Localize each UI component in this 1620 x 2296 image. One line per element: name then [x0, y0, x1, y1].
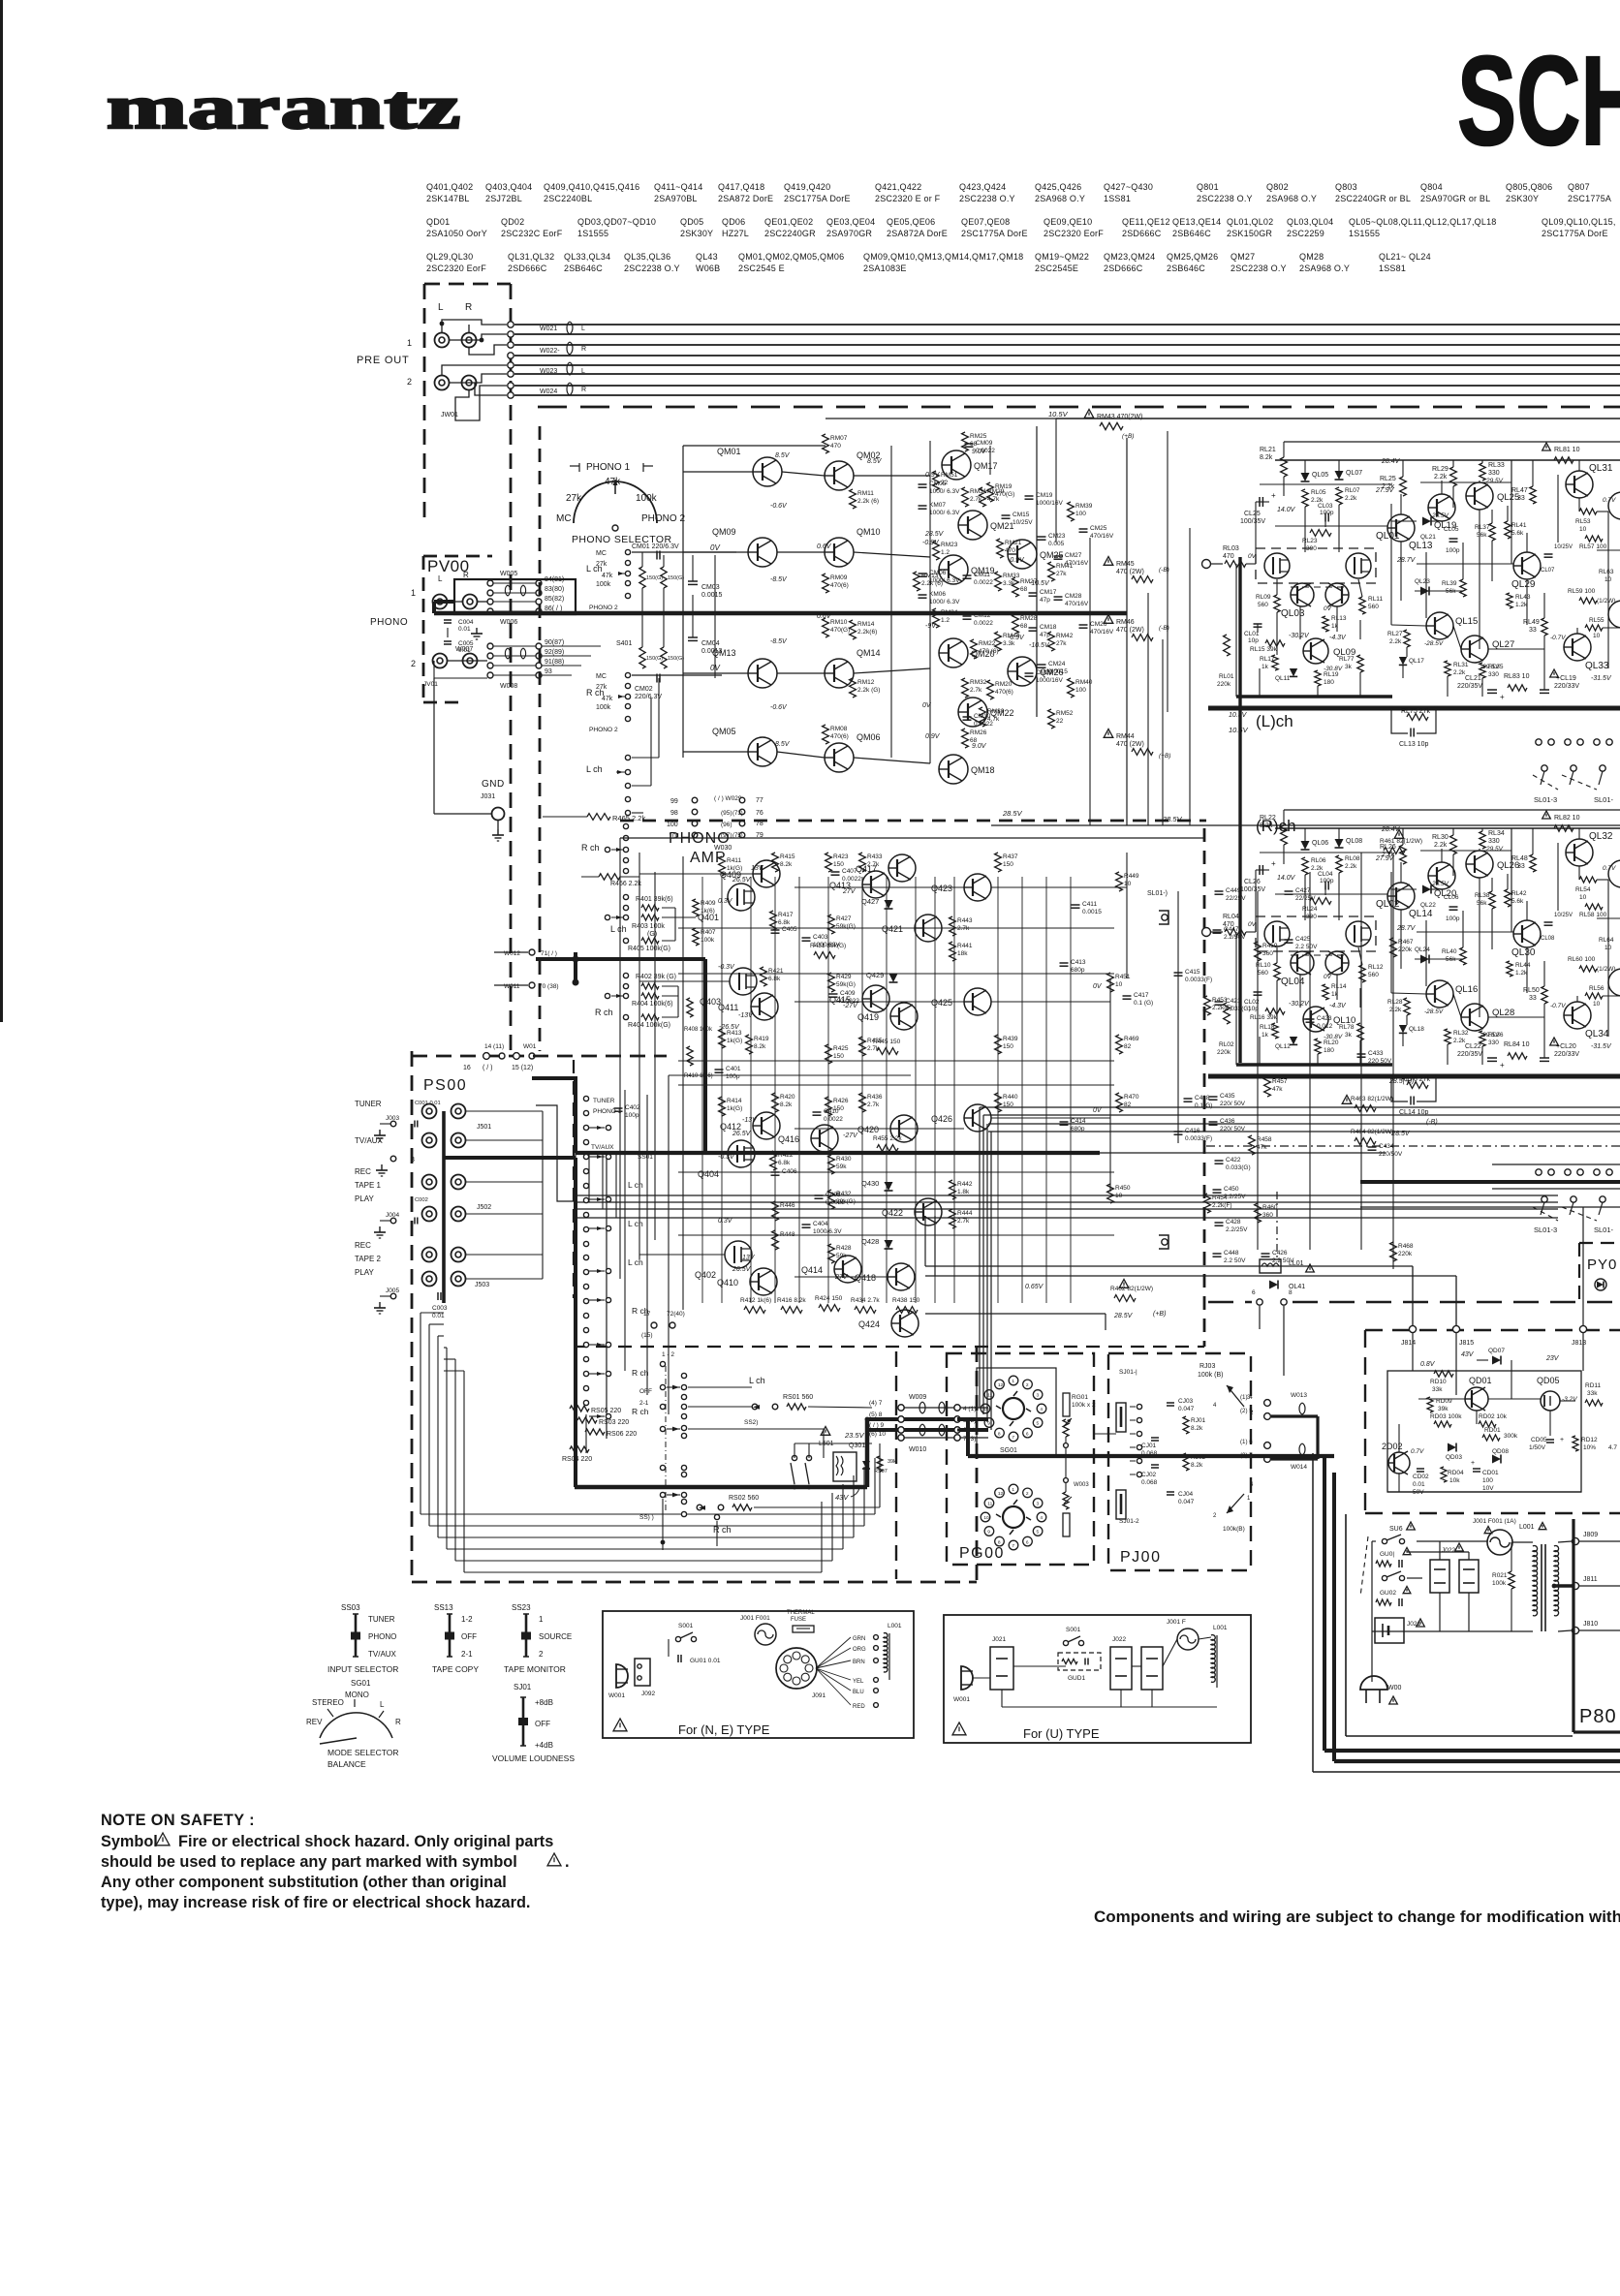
svg-text:470(6): 470(6)	[830, 582, 849, 589]
resistor RM51 22	[933, 471, 940, 490]
transistor QM26	[1008, 657, 1037, 686]
MC amp wiring rails	[682, 446, 684, 758]
svg-text:W008: W008	[500, 683, 517, 690]
svg-text:470(6): 470(6)	[995, 689, 1013, 696]
svg-text:R419: R419	[754, 1036, 769, 1042]
svg-text:RM45: RM45	[1116, 561, 1135, 568]
svg-text:QD02: QD02	[501, 217, 524, 227]
svg-text:2SK150GR: 2SK150GR	[1227, 229, 1272, 238]
dual FET QL02	[1256, 916, 1376, 951]
selector wires to jacks	[465, 1110, 543, 1112]
svg-text:J503: J503	[475, 1282, 489, 1288]
dash-dot column	[665, 1366, 667, 1511]
resistor R467 220k	[1390, 938, 1397, 957]
svg-text:RM33: RM33	[1003, 573, 1020, 579]
svg-text:470: 470	[1223, 553, 1234, 560]
svg-text:P80: P80	[1579, 1706, 1617, 1727]
svg-text:C401: C401	[726, 1066, 741, 1072]
resistor RM45 470 (2W) with hazard triangle	[1104, 557, 1113, 566]
svg-text:0.8V: 0.8V	[1420, 1361, 1436, 1368]
svg-text:C422: C422	[1226, 1157, 1241, 1164]
resistor RS02 560	[697, 1505, 702, 1510]
svg-text:+4dB: +4dB	[535, 1741, 553, 1750]
capacitor C414 680p	[1060, 1121, 1069, 1123]
svg-text:2.2k: 2.2k	[1345, 863, 1357, 870]
resistor RM24 1.2	[933, 608, 940, 628]
svg-text:QL43: QL43	[696, 252, 718, 262]
resistor RM08 470(6)	[823, 725, 829, 744]
svg-text:6: 6	[1252, 1289, 1256, 1296]
svg-text:+: +	[1500, 1061, 1505, 1070]
capacitor block J021	[1375, 1618, 1404, 1643]
resistor RM11 2.2k (6)	[850, 489, 857, 509]
svg-text:2.2k: 2.2k	[1434, 474, 1448, 481]
svg-text:R457: R457	[1272, 1078, 1288, 1085]
svg-text:R403 100k: R403 100k	[632, 923, 665, 930]
transistor QM25	[1008, 540, 1037, 569]
svg-text:220k: 220k	[1398, 1251, 1413, 1257]
svg-text:QM09: QM09	[712, 527, 736, 537]
left long wires to tape contacts	[632, 757, 659, 759]
svg-text:SL01-3: SL01-3	[1534, 795, 1557, 804]
svg-text:11: 11	[987, 1502, 992, 1507]
capacitor block J021 U	[990, 1647, 1013, 1690]
svg-text:8: 8	[998, 1431, 1001, 1437]
svg-text:Q417,Q418: Q417,Q418	[718, 182, 764, 192]
svg-text:150: 150	[1003, 1043, 1013, 1050]
diode QL08	[1335, 839, 1344, 848]
svg-text:RD04: RD04	[1448, 1470, 1464, 1476]
svg-text:13V: 13V	[742, 1255, 756, 1261]
resistor R412 1k(6)	[744, 1307, 765, 1314]
relay contact feed wires	[1492, 1164, 1620, 1165]
resistor RL20 180	[1315, 1039, 1321, 1054]
svg-text:0.65V: 0.65V	[1025, 1284, 1044, 1290]
resistor RL14 1k	[1323, 984, 1328, 1000]
svg-text:RL55: RL55	[1589, 617, 1604, 624]
resistor R462 82(1/2W)	[1114, 1295, 1136, 1302]
svg-text:27k: 27k	[566, 493, 582, 504]
svg-text:0V: 0V	[1248, 921, 1257, 928]
svg-text:QD05: QD05	[1537, 1376, 1560, 1385]
svg-text:33: 33	[1529, 627, 1537, 634]
svg-text:2SD666C: 2SD666C	[1122, 229, 1162, 238]
svg-text:82: 82	[1124, 1043, 1132, 1050]
svg-text:J502: J502	[477, 1204, 491, 1211]
svg-text:RL76 27k: RL76 27k	[1401, 1076, 1430, 1083]
resistor RM43 470(2W) with hazard triangle	[1084, 410, 1094, 419]
svg-text:QL03,QL04: QL03,QL04	[1287, 217, 1333, 227]
svg-text:Q401: Q401	[698, 913, 719, 922]
resistor RS05 220	[570, 1406, 589, 1412]
capacitor CM25 470/16V	[1079, 528, 1088, 530]
svg-text:RM43 470(2W): RM43 470(2W)	[1097, 414, 1142, 420]
capacitor C422 0.033(G)	[1215, 1160, 1224, 1162]
svg-text:SJ01-2: SJ01-2	[1119, 1518, 1139, 1525]
svg-text:9.0V: 9.0V	[972, 743, 987, 750]
resistor RL09 560	[1274, 595, 1280, 612]
svg-text:RD10: RD10	[1430, 1379, 1447, 1385]
resistor R460 360	[1255, 1203, 1262, 1223]
svg-text:47k: 47k	[1257, 1144, 1267, 1151]
svg-text:2.2/25V: 2.2/25V	[1224, 1194, 1246, 1200]
svg-text:QL29: QL29	[1511, 579, 1536, 590]
capacitor CL07	[1544, 553, 1553, 555]
svg-text:8.2k: 8.2k	[754, 1043, 766, 1050]
resistor RD11 33k	[1585, 1400, 1603, 1406]
svg-text:SS01: SS01	[638, 1154, 653, 1161]
capacitor CL04 100p	[1324, 882, 1326, 890]
thick phono signal bus	[434, 600, 455, 604]
resistor RL26 2.2k	[1400, 845, 1407, 864]
svg-text:RL09: RL09	[1256, 594, 1271, 601]
resistor RD02 10k	[1479, 1421, 1496, 1427]
svg-text:MODE SELECTOR: MODE SELECTOR	[327, 1748, 399, 1757]
pre-out bus wires W021-W024 to right edge	[514, 324, 1620, 326]
svg-text:(73): (73)	[732, 811, 743, 817]
svg-text:1: 1	[539, 1615, 544, 1624]
svg-text:SS2): SS2)	[744, 1419, 758, 1426]
svg-text:RS07: RS07	[874, 1469, 888, 1474]
svg-text:QL28: QL28	[1492, 1008, 1514, 1018]
svg-text:10: 10	[983, 1515, 989, 1521]
edge transistor upper (L)ch	[1608, 492, 1620, 519]
svg-text:QM13: QM13	[712, 648, 736, 658]
capacitor CL01 10p	[1254, 623, 1262, 625]
svg-text:GU02: GU02	[1380, 1590, 1396, 1597]
transistor QM01	[753, 457, 782, 486]
svg-text:J022: J022	[1442, 1547, 1455, 1554]
svg-text:Q410: Q410	[717, 1278, 738, 1288]
svg-text:BLU: BLU	[853, 1690, 864, 1695]
svg-text:28.5V: 28.5V	[1431, 881, 1449, 887]
ground mark pv00	[476, 628, 478, 634]
svg-text:GND: GND	[482, 779, 505, 790]
resistor RM26 68	[962, 729, 969, 748]
svg-text:Q807: Q807	[1568, 182, 1590, 192]
svg-text:RM39: RM39	[1075, 503, 1093, 510]
thick speaker buses	[1312, 1453, 1314, 1772]
svg-text:SJ01-|: SJ01-|	[1119, 1369, 1137, 1376]
svg-text:4: 4	[1040, 1407, 1043, 1412]
resistor RL19 180	[1315, 670, 1321, 686]
svg-text:QL06: QL06	[1312, 840, 1328, 847]
svg-text:PLAY: PLAY	[355, 1195, 375, 1203]
svg-text:0.033(G): 0.033(G)	[1226, 1164, 1251, 1171]
svg-text:RL10: RL10	[1256, 962, 1271, 969]
svg-text:RM22: RM22	[979, 640, 996, 647]
svg-text:W003: W003	[1074, 1482, 1089, 1488]
svg-text:RM08: RM08	[830, 726, 848, 732]
resistor R451 10	[1107, 973, 1114, 992]
resistor RL35 330	[1480, 663, 1485, 678]
capacitor CL02 10p	[1254, 991, 1262, 993]
svg-text:C415: C415	[1185, 969, 1200, 976]
svg-text:470(6): 470(6)	[830, 733, 849, 740]
transistor 2D02	[1388, 1452, 1410, 1474]
svg-text:100k: 100k	[636, 493, 658, 504]
svg-text:560: 560	[1258, 602, 1268, 608]
transistor QL14	[1387, 883, 1415, 910]
svg-text:R ch: R ch	[632, 1407, 649, 1416]
svg-text:4: 4	[1040, 1515, 1043, 1521]
resistor RM30 4.7k	[980, 707, 986, 727]
svg-text:Q802: Q802	[1266, 182, 1289, 192]
transistor Q425	[964, 988, 991, 1015]
FET QD05	[1541, 1391, 1560, 1411]
svg-text:RL32: RL32	[1453, 1030, 1469, 1037]
diode QD08	[1492, 1455, 1501, 1464]
svg-text:14.0V: 14.0V	[1277, 507, 1296, 513]
svg-text:RL16 39k: RL16 39k	[1250, 1014, 1278, 1021]
svg-text:2.2/25V: 2.2/25V	[1226, 1226, 1248, 1233]
capacitor CM28 470/16V	[1054, 596, 1063, 598]
transistor Q426	[964, 1104, 991, 1132]
svg-text:330: 330	[1488, 838, 1500, 845]
svg-text:QL05~QL08,QL11,QL12,QL17,QL18: QL05~QL08,QL11,QL12,QL17,QL18	[1349, 217, 1497, 227]
svg-text:0.0015: 0.0015	[1082, 909, 1102, 915]
svg-text:1: 1	[1012, 1487, 1014, 1493]
transistor QL27	[1461, 636, 1488, 663]
svg-text:CL26: CL26	[1244, 879, 1261, 885]
svg-text:L: L	[438, 574, 443, 583]
pre out jack 1L	[435, 333, 450, 348]
svg-text:-30.2V: -30.2V	[1289, 633, 1310, 639]
capacitor C402 100p	[614, 1107, 623, 1109]
GU02 switch	[1382, 1575, 1386, 1580]
wires relay area down	[1259, 1306, 1261, 1329]
connector J809	[1572, 1537, 1578, 1544]
resistor RM52 22	[1048, 709, 1055, 729]
svg-text:59k(G): 59k(G)	[836, 923, 856, 930]
svg-text:PHONO: PHONO	[368, 1632, 396, 1641]
svg-text:R423: R423	[833, 853, 849, 860]
svg-text:85(82): 85(82)	[545, 596, 564, 603]
svg-text:R470: R470	[1124, 1094, 1139, 1101]
svg-text:C404: C404	[813, 1221, 828, 1227]
diode QL21	[1422, 517, 1431, 526]
capacitor CL13 10p	[1410, 729, 1412, 737]
capacitor KM06 1000/ 6.3V	[919, 594, 927, 596]
svg-text:220/35V: 220/35V	[1457, 1051, 1482, 1058]
svg-text:R401 39k(6): R401 39k(6)	[636, 896, 673, 903]
svg-text:-31.5V: -31.5V	[1591, 675, 1612, 682]
svg-text:0.0015: 0.0015	[1048, 668, 1068, 675]
ground J005	[390, 1293, 396, 1299]
svg-text:28.5V: 28.5V	[1002, 809, 1023, 818]
edge transistor lower (R)ch	[1608, 969, 1620, 996]
svg-text:RL26: RL26	[1380, 844, 1396, 851]
transistor QL10	[1303, 1007, 1328, 1032]
capacitor C411 0.0015	[1072, 904, 1080, 906]
svg-text:Q430: Q430	[861, 1179, 879, 1188]
svg-text:8.5V: 8.5V	[867, 458, 883, 465]
resistor R408 100k vertical	[687, 998, 693, 1017]
svg-text:KM06: KM06	[929, 591, 946, 598]
svg-text:RL41: RL41	[1511, 522, 1527, 529]
svg-text:77: 77	[756, 797, 763, 804]
svg-text:(2) 5: (2) 5	[1240, 1408, 1253, 1414]
svg-text:2SK30Y: 2SK30Y	[1506, 194, 1539, 203]
svg-text:8.5V: 8.5V	[775, 741, 791, 748]
svg-text:RL15 39k: RL15 39k	[1250, 646, 1278, 653]
diode QL17	[1399, 657, 1407, 665]
resistor RL34 330	[1480, 831, 1485, 849]
svg-text:RL40: RL40	[1442, 948, 1457, 955]
capacitor CM05 1000/ 6.3V	[919, 483, 927, 485]
svg-text:RM23: RM23	[941, 542, 958, 548]
svg-text:2SA970BL: 2SA970BL	[654, 194, 698, 203]
pre out jack 2R	[462, 376, 477, 390]
resistor RL39 56k	[1460, 579, 1466, 597]
svg-text:C402: C402	[625, 1104, 640, 1111]
svg-text:QM18: QM18	[971, 765, 995, 775]
svg-text:R420: R420	[780, 1094, 795, 1101]
right edge wires	[1579, 1540, 1620, 1542]
svg-text:QM10: QM10	[857, 527, 881, 537]
phono jack 2R	[463, 654, 478, 668]
svg-text:QM06: QM06	[857, 732, 881, 742]
resistor R421 6.8k	[761, 967, 767, 986]
capacitor CM23 0.005	[1038, 536, 1046, 538]
svg-text:220/33V: 220/33V	[1554, 1051, 1579, 1058]
resistor R455 2.2k	[877, 1145, 898, 1152]
svg-text:CD02: CD02	[1413, 1474, 1429, 1480]
28.5V top rail	[991, 824, 1620, 826]
svg-text:-8.5V: -8.5V	[770, 576, 788, 583]
resistor RM14 2.2k(6)	[850, 620, 857, 639]
svg-text:470: 470	[830, 443, 841, 450]
svg-text:MC: MC	[596, 550, 607, 557]
resistor RL49 33	[1542, 618, 1547, 636]
svg-text:R: R	[395, 1718, 401, 1726]
twist marks pv00	[505, 585, 510, 596]
svg-text:47k: 47k	[605, 477, 621, 487]
svg-text:C004: C004	[458, 619, 474, 626]
resistor RM33 3.3k	[995, 572, 1002, 591]
hazard triangle R463	[1342, 1096, 1352, 1104]
capacitor C418 0.1(G)	[1184, 1098, 1193, 1100]
svg-text:OFF: OFF	[461, 1632, 477, 1641]
speaker socket SG01 upper	[977, 1368, 1056, 1455]
svg-text:W007: W007	[455, 646, 473, 653]
transistor QL13	[1387, 514, 1415, 542]
input connector (L)ch	[1202, 560, 1211, 569]
svg-text:QM09,QM10,QM13,QM14,QM17,QM18: QM09,QM10,QM13,QM14,QM17,QM18	[863, 252, 1023, 262]
svg-text:R408 100k: R408 100k	[684, 1027, 713, 1033]
transistor QM14	[825, 659, 854, 688]
diode Q430	[885, 1182, 893, 1191]
svg-text:CJ03: CJ03	[1178, 1398, 1194, 1405]
svg-text:100/35V: 100/35V	[1240, 518, 1265, 525]
svg-text:C003: C003	[432, 1305, 448, 1312]
svg-text:QD01: QD01	[426, 217, 450, 227]
hazard triangle U	[952, 1722, 966, 1735]
svg-text:GU01 0.01: GU01 0.01	[690, 1658, 721, 1664]
diode QL22	[1422, 885, 1431, 894]
resistor RM31 2.7k	[962, 487, 969, 507]
svg-text:CL06: CL06	[1444, 894, 1459, 901]
svg-text:L ch: L ch	[628, 1257, 643, 1267]
capacitor CL14 10p	[1410, 1097, 1412, 1105]
svg-text:28.7V: 28.7V	[1396, 925, 1417, 932]
svg-text:CM02: CM02	[635, 686, 653, 693]
input jacks	[422, 1104, 437, 1119]
resistor RL22 8.2k	[1281, 825, 1288, 845]
resistor R464 82(1/2W)	[1355, 1138, 1376, 1145]
svg-text:R414: R414	[727, 1098, 742, 1104]
svg-text:RL01: RL01	[1219, 673, 1234, 680]
svg-text:5.6k: 5.6k	[1511, 530, 1524, 537]
diode QL07	[1335, 471, 1344, 480]
svg-text:QL33: QL33	[1585, 661, 1609, 671]
svg-text:2: 2	[407, 377, 412, 387]
svg-text:Fire or electrical shock hazar: Fire or electrical shock hazard. Only or…	[178, 1833, 553, 1850]
svg-text:.: .	[565, 1853, 570, 1871]
svg-text:220/35V: 220/35V	[1457, 683, 1482, 690]
svg-text:QE13,QE14: QE13,QE14	[1172, 217, 1221, 227]
svg-text:R463 82(1/2W): R463 82(1/2W)	[1351, 1096, 1393, 1102]
svg-text:100k x 2: 100k x 2	[1072, 1402, 1096, 1409]
fuse J001 F001 NE	[755, 1624, 776, 1645]
svg-text:CM06: CM06	[929, 570, 947, 576]
svg-text:Q426: Q426	[931, 1114, 952, 1124]
svg-text:QL22: QL22	[1420, 902, 1436, 909]
svg-text:27k: 27k	[596, 684, 607, 691]
svg-text:RM28: RM28	[1020, 615, 1038, 622]
capacitor CM11 0.0022	[963, 574, 972, 576]
svg-text:-0.3V: -0.3V	[718, 964, 735, 971]
svg-text:+: +	[1471, 1460, 1475, 1467]
capacitor C434 220/50V	[1368, 1146, 1377, 1148]
transistor Q414	[834, 1256, 861, 1283]
svg-text:C411: C411	[1082, 901, 1097, 908]
capacitor CL08	[1544, 921, 1553, 923]
svg-text:2SA970GR or BL: 2SA970GR or BL	[1420, 194, 1490, 203]
svg-text:L001: L001	[1213, 1625, 1228, 1631]
svg-text:RD03 100k: RD03 100k	[1430, 1413, 1462, 1420]
resistor RM25 68	[962, 432, 969, 451]
svg-text:0.3V: 0.3V	[718, 898, 733, 905]
svg-text:Q414: Q414	[801, 1265, 823, 1275]
svg-text:SS13: SS13	[434, 1603, 453, 1612]
svg-text:220k: 220k	[1217, 1049, 1231, 1056]
svg-text:QL18: QL18	[1409, 1026, 1424, 1033]
svg-text:26.5V: 26.5V	[732, 1266, 752, 1273]
svg-text:10/25V: 10/25V	[1012, 519, 1033, 526]
svg-text:W013: W013	[1291, 1392, 1307, 1399]
diode QL12	[1290, 1037, 1297, 1044]
svg-text:RL60 100: RL60 100	[1568, 956, 1596, 963]
svg-text:100p: 100p	[625, 1112, 639, 1119]
svg-text:0.0015: 0.0015	[701, 592, 723, 599]
svg-text:4.7: 4.7	[1608, 1444, 1617, 1451]
svg-text:47k: 47k	[602, 573, 613, 579]
resistor RL40 56k	[1460, 947, 1466, 965]
svg-text:J091: J091	[812, 1692, 826, 1699]
svg-text:QD03: QD03	[1446, 1454, 1462, 1461]
svg-text:QL03: QL03	[1281, 608, 1305, 619]
svg-text:2SC1775A: 2SC1775A	[1568, 194, 1611, 203]
resistor RL43 1.2k	[1507, 593, 1512, 608]
transistor Q413	[862, 871, 889, 898]
capacitor CJ01 0.068	[1151, 1437, 1159, 1439]
svg-text:R427: R427	[836, 915, 852, 922]
svg-text:J001 F001: J001 F001	[740, 1615, 770, 1622]
svg-text:QL07: QL07	[1346, 470, 1362, 477]
mains plug W001 NE	[616, 1664, 628, 1688]
capacitor block J022 A	[1430, 1560, 1449, 1593]
